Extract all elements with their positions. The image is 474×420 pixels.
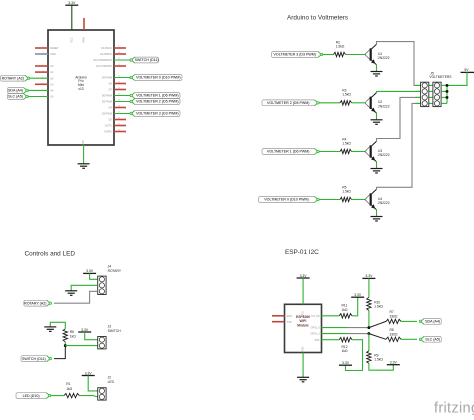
wire D6 to VOLTMETER 1 label	[114, 95, 131, 97]
resistor R2 1.5k	[334, 52, 346, 56]
svg-text:3.3V: 3.3V	[86, 269, 94, 273]
svg-text:VOLTMETER 0 (D10 PWM): VOLTMETER 0 (D10 PWM)	[264, 198, 308, 202]
svg-text:ROTARY (A2): ROTARY (A2)	[2, 76, 24, 80]
svg-text:5V: 5V	[464, 68, 469, 72]
wire J5 pin stub	[441, 84, 447, 86]
resistor R12 1k	[339, 338, 352, 342]
svg-text:1kΩ: 1kΩ	[342, 349, 348, 353]
wire R11 to 3.3V	[352, 297, 358, 316]
wire GPIO_0 from ESP	[322, 327, 348, 329]
junction at J5 pin2	[446, 90, 449, 93]
wire R2 to base of U1	[346, 54, 365, 56]
wire ESP GND to ground	[302, 353, 304, 378]
wire label to R3	[319, 102, 340, 104]
pin D1/TX (right)	[114, 125, 126, 127]
power 3.3V at LED	[82, 375, 95, 377]
net label SWITCH (D11)	[131, 57, 158, 63]
svg-text:Controls and LED: Controls and LED	[25, 251, 76, 258]
ground at U1 emitter	[371, 71, 383, 73]
wire J5 right pins bus	[446, 85, 448, 103]
net label VOLTMETER 3 (D3 PWM)	[271, 52, 321, 58]
svg-text:2N2222: 2N2222	[378, 201, 390, 205]
pin TXD (ESP left, unconnected)	[272, 321, 285, 323]
connector J2 LED	[98, 388, 106, 400]
net label SLC (A5)	[7, 94, 27, 100]
svg-text:ESP-01 I2C: ESP-01 I2C	[285, 249, 319, 256]
wire J4 pin2 to ground	[71, 285, 98, 290]
Arduino Pro Mini U5 body	[48, 30, 114, 145]
resistor R4 1.5k	[340, 149, 352, 153]
net label SDA (A4) right	[421, 318, 442, 324]
svg-text:VOLTMETER 1 (D6 PWM): VOLTMETER 1 (D6 PWM)	[136, 94, 178, 98]
svg-text:Arduino to Voltmeters: Arduino to Voltmeters	[287, 14, 348, 21]
svg-text:SLC (A5): SLC (A5)	[8, 95, 23, 99]
svg-text:SDA (A4): SDA (A4)	[425, 320, 440, 324]
svg-text:R1: R1	[66, 382, 70, 386]
svg-text:fritzing: fritzing	[434, 400, 474, 415]
net label SLC (A5) right	[421, 336, 442, 342]
svg-text:v13: v13	[78, 87, 83, 91]
resistor R5 1.5k	[340, 197, 352, 201]
svg-text:GND: GND	[50, 53, 56, 56]
wire U3 collector to J5 pin3	[377, 97, 421, 141]
svg-text:RESET: RESET	[50, 47, 59, 50]
svg-text:1kΩ: 1kΩ	[70, 335, 76, 339]
net label ROTARY (A2) lower	[24, 300, 51, 306]
net label VOLTMETER 1 (D6 PWM)	[131, 93, 180, 99]
net label ROTARY (A2)	[0, 75, 28, 81]
power 3.3V at switch	[78, 331, 91, 333]
svg-text:J2: J2	[108, 376, 112, 380]
wire 3.3V to J4 pin1	[90, 273, 98, 279]
svg-text:3.3V: 3.3V	[354, 293, 362, 297]
wire GPIO_2 node to R9	[368, 334, 370, 351]
wire R7 to SDA label	[401, 320, 417, 322]
connector J4 ROTARY	[98, 276, 106, 294]
wire emitter U2 to ground	[376, 113, 378, 120]
wire A2 to ROTARY label	[29, 77, 49, 79]
connector J3 SWITCH	[98, 337, 106, 349]
svg-text:VOLTMETER 3 (D3 PWM): VOLTMETER 3 (D3 PWM)	[136, 112, 178, 116]
wire D10 to VOLTMETER 0 label	[114, 77, 131, 79]
svg-text:1.5kΩ: 1.5kΩ	[342, 93, 351, 97]
pin D4 (right)	[114, 107, 126, 109]
pin D2 (right)	[114, 119, 126, 121]
wire RST to R12	[322, 339, 340, 341]
transistor U4 2N2222	[365, 194, 371, 200]
wire Arduino GND to ground	[83, 145, 85, 164]
ground at U4 emitter	[371, 216, 383, 218]
wire emitter U4 to ground	[376, 210, 378, 217]
wire D3 to VOLTMETER 3 label	[114, 113, 131, 115]
svg-text:330Ω: 330Ω	[390, 315, 399, 319]
net label SDA (A4)	[7, 87, 27, 93]
svg-text:LED: LED	[108, 380, 115, 384]
net label LED (D10)	[16, 393, 50, 399]
svg-text:3.3V: 3.3V	[365, 274, 373, 278]
resistor R7 330	[386, 319, 401, 323]
wire U4 collector to J5 pin4	[377, 103, 421, 189]
wire label to R5	[319, 199, 340, 201]
svg-text:VOLTMETER 2 (D5 PWM): VOLTMETER 2 (D5 PWM)	[267, 101, 309, 105]
resistor R9 1.5k	[367, 351, 371, 364]
wire R9 to 3.3V	[369, 363, 393, 370]
wire R5 to base of U4	[352, 199, 365, 201]
wire 3.3V to J3 pin1	[85, 332, 98, 340]
wire R8 to SLC label	[401, 338, 417, 340]
svg-text:3.3V: 3.3V	[81, 328, 89, 332]
svg-text:3.3V: 3.3V	[68, 1, 76, 5]
junction at J5 pin1	[446, 84, 449, 87]
svg-text:VCC: VCC	[70, 37, 73, 42]
svg-text:GPIO_2: GPIO_2	[311, 333, 321, 336]
junction R6/switch	[64, 344, 67, 347]
resistor R8 330	[386, 337, 401, 341]
svg-text:D6 PWM: D6 PWM	[102, 95, 112, 98]
svg-text:D9 PWM: D9 PWM	[102, 77, 112, 80]
svg-text:D11 PWM/MOSI: D11 PWM/MOSI	[94, 59, 113, 62]
wire label to R1	[51, 395, 64, 397]
pin D12/MISO (right)	[114, 53, 126, 55]
pin GND (left)	[35, 53, 48, 55]
svg-text:ROTARY (A2): ROTARY (A2)	[24, 301, 46, 305]
wire CH_PD to R11	[322, 315, 340, 317]
power 3.3V at R11	[351, 296, 364, 298]
svg-text:ROTARY: ROTARY	[108, 269, 122, 273]
svg-text:Module: Module	[297, 323, 309, 327]
svg-text:3.3V: 3.3V	[85, 371, 93, 375]
wire emitter U1 to ground	[376, 65, 378, 72]
wire stubs into J5 left column	[416, 84, 421, 86]
junction at J5 pin3	[446, 96, 449, 99]
connector J5 VOLTMETERS (right column)	[433, 82, 441, 106]
wire GPIO_2 node to R8 (diagonal)	[369, 334, 386, 340]
svg-text:1.5kΩ: 1.5kΩ	[342, 141, 351, 145]
pin A0 (left)	[35, 65, 48, 67]
power 3.3V at ESP VCC	[297, 277, 310, 279]
svg-text:GPIO_0: GPIO_0	[311, 327, 321, 330]
wire J5 pin stub	[441, 90, 447, 92]
transistor U2 2N2222	[365, 97, 371, 103]
ESP8266 WiFi module U6 body	[285, 304, 322, 352]
resistor R10 1.5k	[367, 297, 371, 310]
resistor R11 1k	[339, 314, 352, 318]
svg-text:1.5kΩ: 1.5kΩ	[336, 44, 345, 48]
svg-text:RAW: RAW	[83, 36, 86, 42]
wire junction to SWITCH(D11) label	[54, 346, 65, 359]
wire U1 collector to J5 pin1	[377, 42, 421, 86]
svg-text:1.5kΩ: 1.5kΩ	[374, 358, 383, 362]
pin RAW (top, unconnected)	[83, 18, 85, 30]
wire D11 to SWITCH label	[114, 59, 131, 61]
wire 5V to J5	[447, 72, 467, 85]
wire GPIO_2 from ESP	[322, 333, 348, 335]
power 5V supply	[461, 71, 474, 73]
svg-text:SWITCH (D11): SWITCH (D11)	[22, 357, 46, 361]
svg-text:SWITCH: SWITCH	[108, 329, 122, 333]
wire R1 to J2 pin2	[79, 396, 97, 397]
pin D13/SCK (right)	[114, 47, 126, 49]
svg-text:VOLTMETERS: VOLTMETERS	[429, 75, 452, 79]
svg-text:J3: J3	[108, 325, 112, 329]
wire D5 to VOLTMETER 2 label	[114, 101, 131, 103]
svg-text:VOLTMETER 3 (D3 PWM): VOLTMETER 3 (D3 PWM)	[274, 53, 316, 57]
pin A1 (left)	[35, 71, 48, 73]
resistor R1 1k	[64, 393, 79, 397]
pin D0/RX (right)	[114, 131, 126, 133]
wire J5 pin stub	[441, 96, 447, 98]
svg-text:D10 PWM/SS: D10 PWM/SS	[96, 65, 112, 68]
svg-text:RST: RST	[315, 339, 320, 342]
wire 3.3V to R10	[368, 278, 370, 297]
svg-text:1.5kΩ: 1.5kΩ	[374, 305, 383, 309]
wire label to R4	[319, 151, 340, 153]
ground below ESP	[297, 376, 309, 378]
svg-text:VOLTMETER 2 (D5 PWM): VOLTMETER 2 (D5 PWM)	[136, 100, 178, 104]
junction GPIO_2 node	[367, 332, 370, 335]
svg-text:1kΩ: 1kΩ	[342, 308, 348, 312]
svg-text:D1/TX: D1/TX	[105, 125, 112, 128]
svg-text:330Ω: 330Ω	[390, 332, 399, 336]
pin D8 (right)	[114, 83, 126, 85]
wire A5 to SLC label	[27, 96, 48, 98]
resistor R6 1k	[63, 329, 67, 342]
svg-text:GND: GND	[82, 140, 85, 146]
pin RESET (left)	[35, 47, 48, 49]
svg-text:SWITCH (D11): SWITCH (D11)	[135, 58, 159, 62]
wire ground to R6 top	[50, 322, 65, 329]
svg-text:D12/MISO: D12/MISO	[100, 53, 112, 56]
power 3.3V at R12	[339, 364, 352, 366]
net label VOLTMETER 2 (D5 PWM)	[262, 100, 318, 106]
power 3.3V at rotary	[83, 272, 96, 274]
pin D10 PWM/SS (right)	[114, 65, 126, 67]
transistor U3 2N2222	[365, 146, 371, 152]
wire J4 pin3 to ROTARY(A2) label	[54, 291, 98, 303]
power 3.3V supply at Arduino VCC	[65, 4, 78, 6]
ground at U2 emitter	[371, 119, 383, 121]
ground at rotary	[65, 290, 77, 292]
wire GPIO_0 to node	[347, 327, 369, 329]
svg-text:J4: J4	[108, 264, 112, 268]
wire GPIO_2 to node	[347, 333, 369, 335]
svg-text:3.3V: 3.3V	[300, 274, 308, 278]
svg-text:3.3V: 3.3V	[390, 361, 398, 365]
ground at U3 emitter	[371, 168, 383, 170]
wire R4 to base of U3	[352, 151, 365, 153]
resistor R3 1.5k	[340, 101, 352, 105]
wire U2 collector to J5 pin2	[377, 91, 421, 92]
transistor U1 2N2222	[365, 49, 371, 55]
wire junction to J3 pin2	[65, 345, 97, 347]
wire R12 to 3.3V	[346, 340, 363, 371]
net label VOLTMETER 3 (D3 PWM)	[131, 111, 180, 117]
net label VOLTMETER 0 (D10 PWM)	[258, 197, 318, 203]
svg-text:SDA (A4): SDA (A4)	[8, 89, 23, 93]
net label VOLTMETER 1 (D6 PWM)	[262, 149, 318, 155]
svg-text:2N2222: 2N2222	[378, 153, 390, 157]
svg-text:D5 PWM: D5 PWM	[102, 101, 112, 104]
svg-text:R6: R6	[70, 330, 74, 334]
junction GPIO_0 node	[367, 326, 370, 329]
wire A4 to SDA label	[27, 89, 48, 91]
svg-text:D0/RX: D0/RX	[104, 131, 112, 134]
wire GPIO_0 node to R7 (diagonal)	[369, 321, 386, 327]
wire label to R2	[323, 54, 334, 56]
net label VOLTMETER 2 (D5 PWM)	[131, 99, 180, 105]
net label VOLTMETER 0 (D10 PWM)	[131, 75, 182, 81]
svg-text:1kΩ: 1kΩ	[66, 387, 72, 391]
svg-text:GND: GND	[302, 347, 305, 353]
wire 3.3V to Arduino VCC pin	[71, 5, 73, 30]
wire J5 pin stub	[441, 102, 447, 104]
wire R10 to GPIO_0 node	[368, 311, 370, 328]
wire R3 to base of U2	[352, 102, 365, 104]
wire R6 to junction	[64, 342, 66, 346]
wire emitter U3 to ground	[376, 162, 378, 169]
svg-text:SLC (A5): SLC (A5)	[425, 338, 440, 342]
ground below Arduino	[78, 163, 90, 165]
ground at R6	[44, 326, 56, 328]
pin A3 (left)	[35, 83, 48, 85]
svg-text:LED (D10): LED (D10)	[23, 394, 40, 398]
pin D7 (right)	[114, 89, 126, 91]
svg-text:TXD: TXD	[287, 321, 292, 324]
pin RXD (ESP left, unconnected)	[272, 315, 285, 317]
svg-text:CH_PD: CH_PD	[311, 315, 320, 318]
power 3.3V at R10	[362, 277, 375, 279]
net label SWITCH (D11) lower	[21, 356, 50, 362]
wire 3.3V to J2 pin1	[88, 376, 98, 391]
svg-text:RXD: RXD	[287, 315, 292, 318]
power 3.3V at R9	[387, 364, 400, 366]
wire 3.3V to ESP VCC	[302, 278, 304, 304]
svg-text:2N2222: 2N2222	[378, 56, 390, 60]
svg-text:2N2222: 2N2222	[378, 104, 390, 108]
svg-text:VCC: VCC	[302, 311, 305, 316]
svg-text:3.3V: 3.3V	[342, 361, 350, 365]
svg-text:D3 PWM: D3 PWM	[102, 113, 112, 116]
connector J5 VOLTMETERS (left column)	[421, 82, 429, 106]
svg-text:1.5kΩ: 1.5kΩ	[342, 189, 351, 193]
svg-text:D13/SCK: D13/SCK	[101, 47, 112, 50]
svg-text:VOLTMETER 1 (D6 PWM): VOLTMETER 1 (D6 PWM)	[267, 150, 309, 154]
svg-text:VOLTMETER 0 (D10 PWM): VOLTMETER 0 (D10 PWM)	[136, 76, 180, 80]
